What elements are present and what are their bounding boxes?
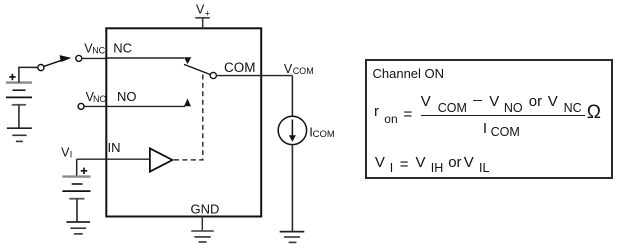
wire B1 top to switch S1 bbox=[19, 67, 38, 82]
note box: Channel ON equations bbox=[365, 59, 613, 179]
wire B1 bottom to ground bbox=[18, 105, 20, 128]
svg-text:V: V bbox=[284, 62, 293, 76]
NO contact arrowhead bbox=[184, 99, 191, 107]
wire I1 to ground bbox=[291, 145, 293, 232]
wire V+ to box top bbox=[202, 18, 204, 28]
device U1 outline box bbox=[106, 28, 261, 216]
battery B1 plus sign bbox=[9, 74, 15, 80]
label V+ bbox=[196, 3, 210, 19]
svg-text:COM: COM bbox=[224, 60, 256, 75]
terminal circle V_NC bbox=[76, 55, 82, 61]
ground (I1) bbox=[280, 232, 305, 243]
wire NO internal bbox=[107, 105, 185, 107]
battery B2 plus sign bbox=[81, 168, 87, 174]
equation numerator: V3 bbox=[548, 93, 558, 110]
current source I1 circle bbox=[278, 116, 306, 144]
svg-text:V: V bbox=[61, 145, 70, 159]
label V_NC bbox=[84, 41, 105, 55]
equation V_I: or bbox=[448, 154, 461, 171]
equation numerator: V2 bbox=[489, 93, 499, 110]
equation denominator: I bbox=[483, 120, 487, 137]
wire GND to ground bbox=[201, 217, 203, 232]
ground (B1) bbox=[7, 128, 32, 141]
terminal circle V_NO bbox=[78, 103, 84, 109]
equation numerator: subscript NO bbox=[504, 101, 523, 115]
equation V_I: V bbox=[375, 154, 385, 171]
voltage source B2 battery plates bbox=[62, 177, 90, 199]
buffer U2 triangle bbox=[150, 148, 173, 171]
equation V_I: V_IL V bbox=[464, 154, 474, 171]
svg-text:COM: COM bbox=[313, 129, 335, 140]
equation denominator: subscript COM bbox=[491, 125, 520, 139]
equation V_I: subscript I bbox=[390, 161, 393, 175]
internal switch blade bbox=[184, 64, 211, 74]
equation V_I: equals bbox=[400, 156, 409, 173]
svg-text:V: V bbox=[196, 3, 205, 17]
wire V_COM down to current source bbox=[291, 76, 293, 117]
label V_COM bbox=[284, 62, 314, 76]
equation r_on: r bbox=[374, 103, 379, 120]
label V_NO bbox=[86, 90, 107, 104]
ground (GND) bbox=[191, 231, 214, 242]
label V_I bbox=[61, 145, 72, 159]
wire V_NC to NC pin bbox=[82, 57, 107, 59]
svg-text:NC: NC bbox=[113, 41, 132, 56]
svg-text:NC: NC bbox=[92, 45, 105, 55]
equation r_on: equals bbox=[404, 106, 413, 123]
svg-text:IN: IN bbox=[108, 140, 121, 155]
equation r_on: subscript on bbox=[384, 112, 397, 126]
switch S1 blade bbox=[44, 60, 63, 67]
wire B2 bottom to ground bbox=[76, 199, 78, 222]
equation numerator: subscript COM bbox=[438, 101, 467, 115]
voltage source B1 battery plates bbox=[6, 83, 32, 105]
equation V_I: subscript IL bbox=[479, 161, 489, 175]
svg-text:NO: NO bbox=[93, 94, 107, 104]
wire V_NO to NO pin bbox=[84, 105, 107, 107]
wire NC internal bbox=[107, 57, 184, 59]
dashed control line from switch to buffer output bbox=[174, 75, 203, 160]
svg-text:NO: NO bbox=[117, 89, 137, 104]
label I_COM bbox=[309, 124, 335, 140]
equation numerator: or bbox=[529, 93, 542, 110]
wire IN bbox=[77, 158, 149, 160]
equation numerator: V bbox=[421, 93, 431, 110]
svg-text:I: I bbox=[70, 149, 73, 159]
equation V_I: subscript IH bbox=[431, 161, 444, 175]
switch S1 pole circle bbox=[38, 65, 44, 71]
wire V_I label to battery B2 bbox=[76, 159, 78, 176]
equation numerator: minus bbox=[473, 100, 482, 102]
equation V_I: V_IH V bbox=[416, 154, 426, 171]
internal switch pole circle bbox=[210, 72, 216, 78]
ground (B2) bbox=[66, 222, 90, 234]
V+ terminal bar bbox=[195, 17, 210, 19]
switch S1 arrowhead bbox=[60, 55, 72, 62]
equation: ohm symbol bbox=[587, 102, 601, 124]
wire COM bbox=[216, 75, 292, 77]
equation fraction bar bbox=[421, 115, 586, 117]
current source I1 arrow bbox=[289, 120, 296, 142]
svg-text:GND: GND bbox=[191, 201, 220, 216]
equation numerator: subscript NC bbox=[564, 101, 582, 115]
note text: Channel ON bbox=[373, 66, 445, 81]
NC contact arrowhead bbox=[184, 57, 191, 64]
svg-text:COM: COM bbox=[293, 66, 314, 76]
